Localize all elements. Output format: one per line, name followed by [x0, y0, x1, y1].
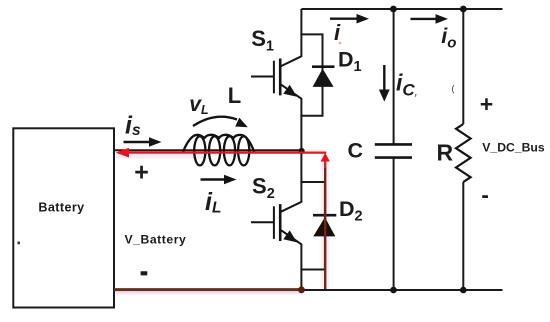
- label - (bus): [482, 195, 488, 198]
- svg-text:+: +: [134, 159, 149, 187]
- arrow io: [411, 18, 439, 20]
- vL curved arrow: [193, 117, 237, 126]
- S2 upper branch wire: [300, 150, 302, 203]
- pink halo under main wire: [116, 154, 206, 159]
- svg-text:V_DC_Bus: V_DC_Bus: [482, 141, 545, 155]
- pink halo under bottom rail: [116, 291, 302, 294]
- capacitor C plates: [375, 143, 412, 146]
- arrow iS: [124, 141, 153, 143]
- junction dot mid node: [299, 148, 305, 154]
- svg-text:V_Battery: V_Battery: [125, 233, 187, 247]
- capacitor branch top wire: [393, 9, 395, 145]
- wire: bottom rail black segment: [301, 289, 503, 291]
- svg-text:L: L: [228, 83, 241, 108]
- S1 lower branch wire: [300, 98, 302, 151]
- battery box: [13, 128, 114, 307]
- S1 top stub: [300, 33, 323, 35]
- red current path horizontal: [118, 152, 326, 154]
- stray dot artifact: [18, 242, 20, 245]
- capacitor branch bottom wire: [393, 158, 395, 291]
- diode D2: [313, 214, 336, 217]
- arrow i (top): [330, 18, 359, 20]
- junction dot bottom R: [460, 287, 467, 294]
- D1 branch wire: [322, 34, 324, 115]
- red speck: [339, 42, 342, 45]
- red vertical segment bright: [324, 156, 326, 168]
- IGBT S1: [251, 56, 301, 98]
- svg-text:i: i: [334, 20, 341, 45]
- junction dot top cap: [390, 6, 397, 13]
- svg-text:+: +: [480, 91, 493, 117]
- wire: mid horizontal (battery + to switch node): [114, 149, 302, 151]
- resistor R zigzag: [456, 124, 471, 182]
- arrow iL: [201, 178, 228, 180]
- inductor L coil: [183, 135, 254, 166]
- svg-text:(: (: [452, 84, 455, 94]
- junction dot top R: [460, 6, 467, 13]
- S2 lower branch wire: [300, 244, 302, 290]
- IGBT S2: [251, 202, 301, 244]
- label - (battery): [141, 271, 148, 275]
- svg-text:R: R: [437, 140, 454, 166]
- svg-text:Battery: Battery: [38, 201, 84, 215]
- red arrowhead up: [321, 153, 330, 162]
- red arrowhead left (into battery): [116, 148, 129, 158]
- pink halo beside red vertical wire: [321, 156, 330, 288]
- diode D1: [312, 65, 335, 68]
- red vertical segment maroon (over diode branch): [324, 168, 326, 289]
- resistor branch bottom wire: [462, 182, 464, 290]
- S2 bottom stub: [300, 269, 326, 271]
- wire: bottom rail brown segment (battery - to node): [114, 288, 302, 291]
- S1 upper branch wire: [300, 9, 302, 57]
- D2 branch wire: [324, 182, 326, 270]
- resistor branch top wire: [462, 9, 464, 124]
- S1 bottom stub: [300, 115, 323, 117]
- svg-text:C: C: [348, 139, 364, 163]
- wire: top rail: [301, 8, 502, 10]
- arrow iC: [383, 65, 385, 92]
- junction dot bottom cap: [390, 287, 397, 294]
- S2 top stub: [300, 181, 326, 183]
- junction dot bottom S2 (dark red): [298, 286, 305, 293]
